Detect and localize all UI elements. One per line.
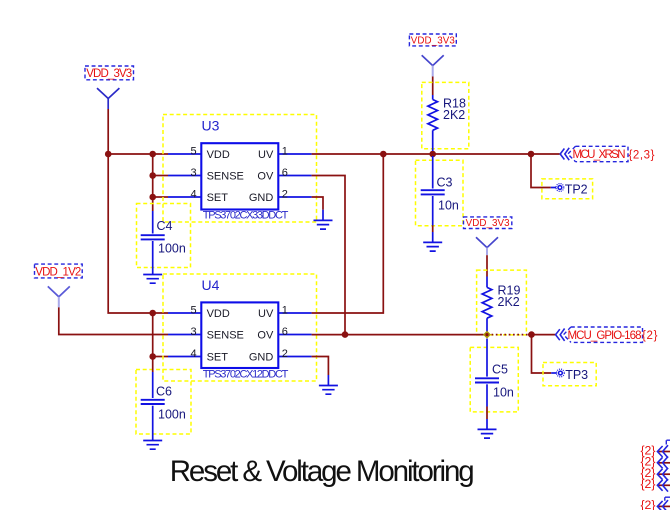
svg-text:U3: U3 bbox=[202, 118, 220, 134]
svg-text:TP3: TP3 bbox=[565, 368, 588, 382]
wire VDD_3V3 rail vertical bbox=[108, 109, 168, 313]
svg-text:C5: C5 bbox=[492, 362, 508, 376]
power flag VDD_3V3 (left) bbox=[85, 66, 134, 109]
wire C5 to ground bbox=[486, 407, 488, 420]
svg-text:SENSE: SENSE bbox=[207, 330, 244, 342]
svg-text:GND: GND bbox=[249, 352, 274, 364]
svg-text:6: 6 bbox=[282, 167, 288, 179]
pin 1 U4 UV bbox=[258, 304, 312, 320]
ground C5 bbox=[478, 419, 497, 438]
wire U4 UV up bbox=[312, 154, 384, 313]
op-amp U3 (supervisor TPS3702CX33DDCT) bbox=[163, 115, 317, 223]
wire U4 OV to node bbox=[312, 334, 345, 336]
wire VDD_1V2 to U4 SENSE bbox=[59, 307, 168, 334]
svg-text:GND: GND bbox=[249, 192, 274, 204]
svg-text:VDD_3V3: VDD_3V3 bbox=[466, 218, 511, 229]
pin 2 U4 GND bbox=[249, 348, 312, 364]
capacitor C3 bbox=[416, 156, 464, 226]
wire VDD_3V3 to U3 VDD bbox=[108, 153, 168, 155]
svg-text:SET: SET bbox=[207, 352, 229, 364]
wire U4 GND to ground bbox=[312, 357, 329, 376]
svg-text:VDD: VDD bbox=[207, 308, 230, 320]
wire power to R19 bbox=[486, 255, 488, 276]
ground U3 bbox=[314, 210, 333, 229]
wire U4 feed column bbox=[152, 313, 154, 366]
ground C4 bbox=[143, 275, 162, 284]
wire U3 GND to ground bbox=[312, 197, 323, 210]
ground U4 bbox=[319, 375, 338, 394]
svg-text:C6: C6 bbox=[156, 384, 172, 398]
svg-text:VDD: VDD bbox=[207, 149, 230, 161]
svg-text:VDD_1V2: VDD_1V2 bbox=[35, 266, 81, 278]
svg-text:C3: C3 bbox=[437, 175, 453, 189]
svg-text:OV: OV bbox=[257, 330, 274, 342]
svg-text:OV: OV bbox=[257, 171, 274, 183]
wire U3 feed column bbox=[152, 154, 154, 211]
svg-text:TP2: TP2 bbox=[565, 183, 588, 197]
svg-text:MCU_GPIO-168: MCU_GPIO-168 bbox=[568, 330, 642, 342]
svg-text:1: 1 bbox=[282, 145, 288, 157]
wire C3 to ground bbox=[432, 226, 434, 233]
svg-text:C4: C4 bbox=[157, 219, 173, 233]
svg-text:UV: UV bbox=[258, 149, 274, 161]
svg-text:3: 3 bbox=[190, 326, 196, 338]
wire TP3 branch bbox=[532, 335, 552, 373]
node junction U3 SENSE bbox=[149, 172, 156, 179]
node junction XRSN/U4-UV bbox=[380, 151, 387, 158]
wire to U3 SENSE bbox=[153, 175, 168, 177]
wire U3 OV down bbox=[312, 176, 345, 335]
power flag VDD_3V3 (above R19) bbox=[464, 217, 512, 255]
node junction GPIO/TP3 bbox=[528, 331, 535, 338]
power flag VDD_1V2 bbox=[35, 264, 83, 307]
global label row 5 (cut off) bbox=[640, 497, 670, 510]
resistor R18 2K2 bbox=[422, 82, 469, 151]
svg-text:5: 5 bbox=[190, 145, 196, 157]
pin 5 U3 VDD bbox=[168, 145, 230, 161]
svg-text:{2}: {2} bbox=[642, 330, 658, 342]
svg-text:5: 5 bbox=[190, 304, 196, 316]
svg-text:3: 3 bbox=[190, 167, 196, 179]
global label row 3 (cut off) bbox=[640, 466, 670, 481]
node junction U3 VDD bbox=[149, 151, 156, 158]
pin 5 U4 VDD bbox=[168, 304, 230, 320]
capacitor C4 bbox=[137, 204, 191, 275]
svg-text:Reset & Voltage Monitoring: Reset & Voltage Monitoring bbox=[170, 455, 475, 488]
svg-text:100n: 100n bbox=[158, 242, 186, 256]
svg-text:10n: 10n bbox=[493, 385, 514, 399]
wire dotted to MCU_GPIO label bbox=[492, 334, 529, 336]
svg-text:2K2: 2K2 bbox=[498, 295, 520, 309]
resistor R19 2K2 bbox=[477, 270, 527, 335]
svg-text:VDD_3V3: VDD_3V3 bbox=[86, 68, 132, 80]
test point TP2 bbox=[542, 179, 593, 199]
svg-text:TPS3702CX12DDCT: TPS3702CX12DDCT bbox=[203, 369, 289, 381]
node junction U3 SET bbox=[149, 194, 156, 201]
svg-text:SET: SET bbox=[207, 192, 229, 204]
svg-text:4: 4 bbox=[190, 348, 196, 360]
svg-text:6: 6 bbox=[282, 326, 288, 338]
pin 3 U3 SENSE bbox=[168, 167, 244, 183]
pin 6 U4 OV bbox=[257, 326, 311, 342]
pin 3 U4 SENSE bbox=[168, 326, 244, 342]
svg-text:4: 4 bbox=[190, 188, 196, 200]
svg-text:UV: UV bbox=[258, 308, 274, 320]
capacitor C5 bbox=[470, 339, 518, 412]
svg-text:100n: 100n bbox=[158, 407, 186, 421]
wire to U3 SET bbox=[153, 196, 168, 198]
wire power to R18 bbox=[432, 77, 434, 96]
global label MCU_GPIO-168 bbox=[556, 327, 658, 342]
node junction U4 VDD bbox=[149, 310, 156, 317]
global label MCU_XRSN bbox=[560, 146, 654, 161]
node junction XRSN/TP2 bbox=[528, 151, 535, 158]
wire TP2 branch bbox=[531, 154, 551, 188]
op-amp U4 (supervisor TPS3702CX12DDCT) bbox=[163, 274, 317, 381]
svg-text:{2}: {2} bbox=[640, 477, 655, 491]
pin 4 U4 SET bbox=[168, 348, 228, 364]
pin 1 U3 UV bbox=[258, 145, 312, 161]
svg-text:2: 2 bbox=[282, 188, 288, 200]
node junction VDD_3V3/U3 bbox=[105, 151, 112, 158]
ground C3 bbox=[423, 232, 442, 251]
svg-text:TPS3702CX33DDCT: TPS3702CX33DDCT bbox=[203, 209, 289, 221]
svg-text:{2,3}: {2,3} bbox=[629, 150, 655, 162]
global label row 2 (cut off) bbox=[640, 455, 670, 470]
svg-text:U4: U4 bbox=[202, 277, 220, 293]
global label row 1 (cut off) bbox=[640, 440, 670, 458]
svg-text:1: 1 bbox=[282, 304, 288, 316]
global label row 4 (cut off) bbox=[640, 477, 670, 492]
wire U3-OV/U4-OV node to R19 bbox=[345, 334, 484, 336]
svg-text:2: 2 bbox=[282, 348, 288, 360]
node net-tie diamond R19/C5 bbox=[483, 331, 491, 339]
ground C6 bbox=[143, 441, 162, 450]
node junction XRSN/R18 bbox=[429, 151, 436, 158]
svg-text:10n: 10n bbox=[438, 198, 459, 212]
pin 4 U3 SET bbox=[168, 188, 228, 204]
power flag VDD_3V3 (above R18) bbox=[409, 34, 456, 77]
test point TP3 bbox=[543, 363, 596, 386]
svg-text:SENSE: SENSE bbox=[207, 171, 244, 183]
pin 2 U3 GND bbox=[249, 188, 312, 204]
pin 6 U3 OV bbox=[257, 167, 311, 183]
node junction U4 SET bbox=[149, 353, 156, 360]
node junction OV net bbox=[342, 331, 349, 338]
svg-text:{2}: {2} bbox=[640, 498, 655, 510]
capacitor C6 bbox=[136, 366, 191, 441]
svg-text:VDD_3V3: VDD_3V3 bbox=[411, 35, 456, 46]
svg-text:MCU_XRSN: MCU_XRSN bbox=[573, 149, 626, 161]
wire to MCU_GPIO label bbox=[528, 334, 556, 336]
wire MCU_XRSN net bbox=[312, 153, 560, 155]
wire to U4 SET bbox=[153, 356, 168, 358]
svg-text:2K2: 2K2 bbox=[443, 108, 465, 122]
